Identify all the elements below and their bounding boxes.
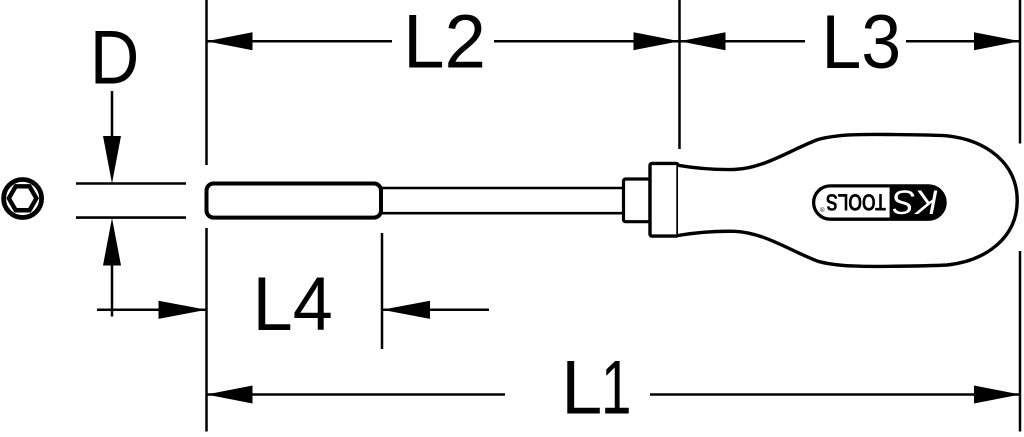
svg-text:L3: L3 — [821, 0, 901, 84]
svg-text:TOOLS: TOOLS — [826, 188, 886, 214]
svg-text:L4: L4 — [253, 261, 333, 346]
svg-text:D: D — [90, 16, 139, 100]
svg-text:KS: KS — [892, 183, 938, 221]
svg-text:®: ® — [820, 205, 825, 212]
svg-text:L2: L2 — [403, 0, 486, 84]
svg-text:L: L — [561, 344, 602, 429]
svg-text:1: 1 — [601, 346, 631, 431]
